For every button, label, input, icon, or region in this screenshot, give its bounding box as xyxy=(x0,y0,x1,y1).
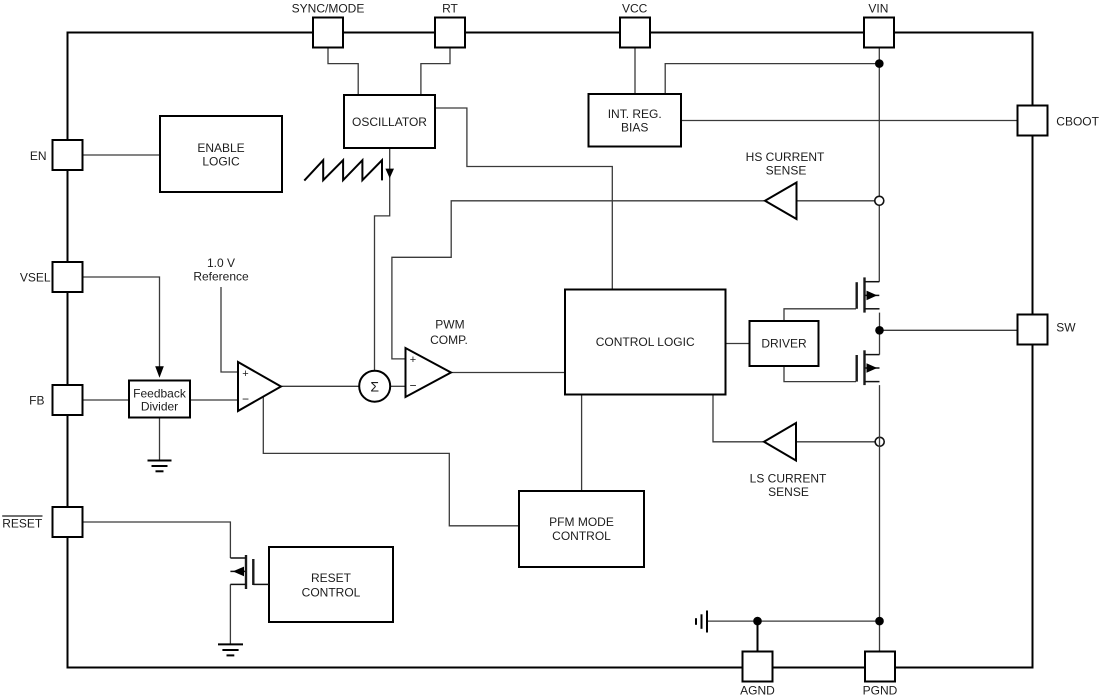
pin PGND xyxy=(865,652,895,682)
wire VSEL to feedback divider top xyxy=(83,277,160,367)
svg-text:BIAS: BIAS xyxy=(621,121,648,135)
wire oscillator ramp down to summing node xyxy=(375,148,390,371)
svg-text:CBOOT: CBOOT xyxy=(1056,115,1099,129)
wire error amp compensation to PFM MODE CONTROL xyxy=(263,397,519,526)
wire DRIVER bottom to LS FET gate xyxy=(784,366,856,382)
wire rail below LS FET to PGND xyxy=(879,385,881,651)
pin VCC xyxy=(620,18,650,48)
wire CONTROL LOGIC bottom to PFM MODE CONTROL xyxy=(581,395,583,492)
svg-text:EN: EN xyxy=(30,149,47,163)
transistor reset FET (mirrored) xyxy=(230,555,269,589)
wire CONTROL LOGIC bottom to LS current sense output xyxy=(713,395,764,442)
block ENABLE LOGIC xyxy=(160,116,282,192)
svg-text:SYNC/MODE: SYNC/MODE xyxy=(292,2,365,16)
pin SW xyxy=(1018,315,1048,345)
wire AGND riser xyxy=(757,621,759,651)
arrowhead into feedback divider xyxy=(155,366,164,378)
svg-text:RESET: RESET xyxy=(311,571,352,585)
svg-text:LS CURRENT: LS CURRENT xyxy=(750,471,827,485)
junction dot on bus at AGND xyxy=(753,617,762,626)
wire PWM comp output to CONTROL LOGIC xyxy=(451,372,565,374)
block Feedback Divider xyxy=(129,381,190,418)
block PFM MODE CONTROL xyxy=(519,491,644,567)
svg-text:Reference: Reference xyxy=(193,270,249,284)
block RESET CONTROL xyxy=(269,547,393,622)
arrowhead on oscillator ramp line xyxy=(385,169,394,179)
wire feedback divider to ground xyxy=(159,418,161,461)
block DRIVER xyxy=(750,321,819,366)
svg-text:CONTROL: CONTROL xyxy=(552,529,611,543)
svg-text:CONTROL: CONTROL xyxy=(302,586,361,600)
svg-text:RT: RT xyxy=(442,2,458,16)
svg-text:COMP.: COMP. xyxy=(430,333,468,347)
wire SW rail between FETs xyxy=(879,313,881,355)
wire HS current sense input to VIN rail tap xyxy=(797,200,875,202)
wire VCC to INT REG BIAS xyxy=(634,48,636,94)
ground symbol left of AGND (rotated) xyxy=(696,611,707,633)
wire FB pin to feedback divider xyxy=(84,399,130,401)
svg-text:PWM: PWM xyxy=(435,318,464,332)
svg-text:LOGIC: LOGIC xyxy=(202,155,240,169)
svg-text:CONTROL LOGIC: CONTROL LOGIC xyxy=(596,335,695,349)
amplifier LS current sense xyxy=(764,423,796,461)
pin VSEL xyxy=(53,262,83,292)
wire oscillator output to CONTROL LOGIC top xyxy=(435,108,612,290)
svg-text:VSEL: VSEL xyxy=(20,271,51,285)
wire CONTROL LOGIC to DRIVER xyxy=(726,343,750,345)
ground symbol below feedback divider xyxy=(148,461,172,472)
svg-text:1.0 V: 1.0 V xyxy=(207,256,235,270)
wire 1.0V reference to error amp + input xyxy=(221,287,238,372)
block OSCILLATOR xyxy=(344,95,435,148)
svg-text:SENSE: SENSE xyxy=(766,163,807,177)
wire DRIVER top to HS FET gate xyxy=(784,309,856,321)
pin SYNC/MODE xyxy=(313,18,343,48)
wire RT to oscillator xyxy=(421,48,450,96)
transistor HS power FET xyxy=(857,277,880,312)
wire SW node to SW pin xyxy=(880,329,1018,331)
svg-text:SENSE: SENSE xyxy=(768,485,809,499)
IC outer border xyxy=(68,33,1033,668)
pin CBOOT xyxy=(1018,106,1048,136)
sawtooth waveform symbol xyxy=(304,160,382,180)
block CONTROL LOGIC xyxy=(565,290,726,395)
pin VIN xyxy=(864,18,894,48)
svg-text:VCC: VCC xyxy=(622,2,648,16)
junction dot SW node xyxy=(875,326,884,335)
junction dot on bus at PGND xyxy=(875,617,884,626)
pin EN xyxy=(53,140,83,170)
wire reset FET source to ground xyxy=(229,584,231,644)
svg-text:OSCILLATOR: OSCILLATOR xyxy=(352,115,427,129)
open circle tap on rail (LS sense) xyxy=(875,437,884,446)
wire RESET pin to reset FET gate-drain xyxy=(83,522,231,558)
wire feedback divider to error amp - input xyxy=(190,399,238,401)
junction dot VIN branch xyxy=(875,59,884,68)
wire HS current sense output to PWM comp + input xyxy=(392,201,765,359)
wire VIN rail down to HS FET drain xyxy=(878,48,880,282)
svg-text:RESET: RESET xyxy=(2,517,43,531)
svg-text:PGND: PGND xyxy=(863,684,898,698)
summing node xyxy=(359,371,390,402)
open circle tap on VIN rail (HS sense) xyxy=(875,196,884,205)
ground symbol below reset FET xyxy=(218,644,243,655)
svg-text:−: − xyxy=(242,392,249,406)
svg-text:FB: FB xyxy=(29,394,44,408)
svg-text:ENABLE: ENABLE xyxy=(197,141,244,155)
block INT. REG. BIAS xyxy=(589,94,682,147)
pin FB xyxy=(53,385,83,415)
pin RESET xyxy=(53,507,83,537)
op-amp error amplifier xyxy=(238,362,281,411)
wire error amp output to summing node xyxy=(281,385,359,387)
wire AGND/PGND ground bus xyxy=(707,620,880,622)
wire EN pin to ENABLE LOGIC xyxy=(83,154,161,156)
op-amp PWM comparator xyxy=(406,348,452,397)
svg-text:+: + xyxy=(410,354,416,366)
wire LS current sense input to SW rail tap xyxy=(796,441,875,443)
svg-text:Divider: Divider xyxy=(141,399,178,413)
svg-text:SW: SW xyxy=(1056,321,1076,335)
wire SYNC/MODE to oscillator xyxy=(328,48,358,96)
svg-text:VIN: VIN xyxy=(868,2,888,16)
svg-text:Feedback: Feedback xyxy=(133,386,187,400)
svg-text:+: + xyxy=(242,368,248,380)
amplifier HS current sense xyxy=(765,183,797,220)
svg-text:PFM MODE: PFM MODE xyxy=(549,515,614,529)
svg-text:AGND: AGND xyxy=(740,684,775,698)
svg-text:Σ: Σ xyxy=(370,379,379,395)
transistor LS power FET xyxy=(857,350,880,385)
svg-text:INT. REG.: INT. REG. xyxy=(608,107,662,121)
pin RT xyxy=(435,18,465,48)
svg-text:HS CURRENT: HS CURRENT xyxy=(746,150,825,164)
wire VIN branch to INT REG BIAS top xyxy=(665,64,879,94)
svg-text:−: − xyxy=(409,379,416,393)
wire INT REG BIAS to CBOOT xyxy=(681,120,1018,122)
pin AGND xyxy=(743,652,773,682)
svg-text:DRIVER: DRIVER xyxy=(761,337,807,351)
wire summing node to PWM comp - input xyxy=(390,385,405,387)
